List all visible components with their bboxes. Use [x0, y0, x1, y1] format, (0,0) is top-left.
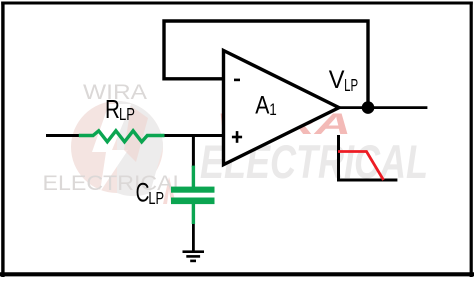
- svg-text:C: C: [136, 177, 150, 207]
- svg-text:LP: LP: [148, 188, 164, 208]
- svg-text:V: V: [329, 67, 345, 94]
- svg-text:R: R: [105, 96, 120, 124]
- svg-text:A: A: [255, 92, 269, 120]
- svg-text:LP: LP: [344, 75, 358, 95]
- svg-text:1: 1: [269, 100, 277, 119]
- svg-text:LP: LP: [119, 104, 135, 124]
